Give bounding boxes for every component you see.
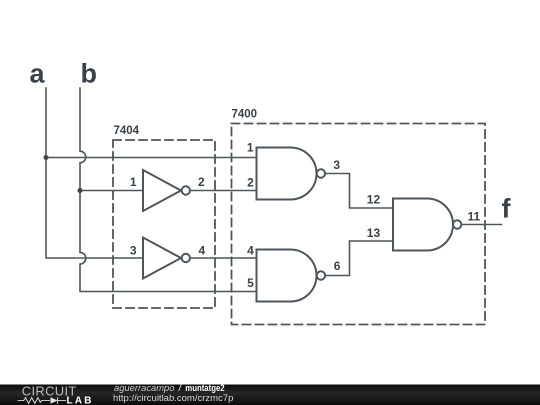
footer bar bbox=[0, 385, 540, 405]
node junction on b bbox=[78, 188, 83, 193]
7404 dashed package box bbox=[113, 140, 215, 308]
wire: b branch to inverter U1a input bbox=[80, 190, 143, 192]
svg-text:1: 1 bbox=[247, 141, 254, 155]
svg-text:4: 4 bbox=[199, 243, 206, 257]
svg-text:3: 3 bbox=[333, 158, 340, 172]
wire: U2a output to U2d pin 12 bbox=[325, 174, 393, 209]
svg-text:b: b bbox=[81, 59, 98, 89]
inverter U1a (7404) bbox=[143, 170, 190, 211]
7400 dashed package box bbox=[232, 124, 486, 325]
svg-text:5: 5 bbox=[247, 276, 254, 290]
svg-text:7404: 7404 bbox=[114, 125, 140, 137]
svg-text:11: 11 bbox=[468, 210, 481, 224]
svg-text:http://circuitlab.com/crzmc7p: http://circuitlab.com/crzmc7p bbox=[113, 393, 233, 404]
NAND gate U2a (7400 pins 1,2,3) bbox=[257, 148, 326, 200]
svg-text:1: 1 bbox=[130, 175, 137, 189]
svg-text:f: f bbox=[502, 193, 512, 223]
wire: U1a output to NAND U2a pin 2 bbox=[190, 190, 257, 192]
svg-text:LAB: LAB bbox=[67, 395, 94, 405]
wire: U2b output to U2d pin 13 bbox=[325, 241, 393, 276]
node junction on a bbox=[44, 155, 49, 160]
inverter U1b (7404) bbox=[143, 238, 190, 279]
svg-text:13: 13 bbox=[367, 226, 381, 240]
wire: U1b output to NAND U2b pin 4 bbox=[190, 257, 257, 259]
svg-text:6: 6 bbox=[334, 259, 341, 273]
wire: a branch to NAND U2a pin 1 bbox=[46, 157, 257, 159]
CircuitLab logo resistor squiggle and diode bbox=[18, 397, 67, 404]
svg-text:2: 2 bbox=[198, 175, 205, 189]
wire: U2d output to f bbox=[461, 224, 501, 226]
svg-text:12: 12 bbox=[367, 193, 381, 207]
wire: input a vertical with bend to inverter U1b bbox=[46, 88, 143, 258]
svg-text:2: 2 bbox=[247, 176, 254, 190]
svg-text:4: 4 bbox=[247, 243, 254, 257]
wire: input b vertical with two hops and bend to NAND U2b pin 5 bbox=[80, 88, 257, 292]
NAND gate U2b (7400 pins 4,5,6) bbox=[257, 250, 326, 302]
svg-text:a: a bbox=[30, 59, 46, 89]
svg-text:3: 3 bbox=[130, 243, 137, 257]
svg-text:7400: 7400 bbox=[232, 108, 258, 120]
NAND gate U2d (7400 pins 12,13,11) bbox=[393, 199, 461, 251]
